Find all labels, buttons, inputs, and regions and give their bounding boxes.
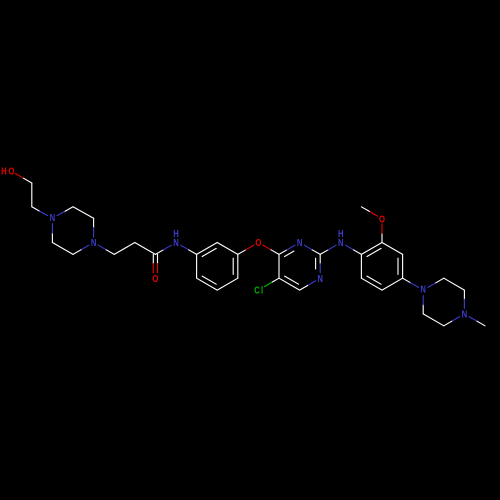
bond ring2 edge top-UR [382,243,403,255]
bond ring1 edge UL-top [197,243,218,255]
double bond inner line ring1 UL-top [202,248,216,256]
bond piperazine2 N-C [428,283,436,288]
bond pyrimidine C5-C4 [278,254,280,278]
bond piperazine1 C-C b [52,243,73,255]
double bond inner line ring1 UR-LR [232,258,234,274]
bond CH2-CH2 [31,183,33,207]
bond piperazine1 C-N [93,218,95,227]
double bond inner line ring1 bot-LL [202,276,216,284]
double bond C=O carbonyl [157,254,159,263]
bond ring1 edge bot-LL [197,278,218,290]
bond ring1 edge LL-UL [196,254,198,278]
svg-text:N: N [297,237,303,248]
double bond inner line pyrimidine C6=C5 [285,276,299,284]
bond NH-phenyl2 [346,245,354,250]
svg-text:N: N [91,237,97,248]
bond ring2 edge LR-bot [382,278,403,290]
bond NH-phenyl [181,245,189,250]
bond pyrimidine N1-C6 [308,281,316,286]
svg-text:O: O [152,273,158,284]
bond piperazine2 C-C b [423,314,444,326]
bond phenyl2-N piperazine2 [403,278,411,283]
svg-text:O: O [8,166,14,177]
double bond inner line ring2 bot-LL [367,276,381,284]
bond piperazine1 N-C b [81,245,89,250]
bond piperazine1 N-C [57,211,65,215]
svg-text:N: N [317,273,323,284]
bond ring1 edge UR-LR [237,254,239,278]
bond HO-CH2 [15,173,23,178]
bond C5-Cl [272,278,279,282]
svg-text:N: N [420,284,426,295]
bond CH2-CH2 propanamide [114,243,135,255]
bond piperazine1 C-C [73,207,94,218]
svg-text:C: C [254,285,260,296]
bond ring1 edge top-UR [217,243,238,255]
bond ring2 edge LL-UL [360,254,362,278]
bond piperazine2 C-C [444,278,465,290]
bond CH2-N piperazine1 [32,207,40,211]
svg-text:N: N [462,308,468,319]
svg-text:H: H [1,166,7,177]
bond O-pyrimidine C4 [263,245,271,250]
svg-text:O: O [379,213,385,224]
bond pyrimidine C2-NH [320,250,328,255]
svg-text:H: H [338,228,344,239]
double bond inner line pyrimidine C4=N3 [285,251,294,256]
bond pyrimidine N3-C2 [304,245,312,250]
double bond inner line ring2 UL-top [367,248,381,256]
bond O-CH3 methoxy [369,211,377,216]
bond N-CH2 propanamide [98,245,106,250]
bond CH2-C=O [135,243,156,255]
bond phenyl2-O methoxy [381,233,383,242]
double bond inner line pyrimidine C2=N1 [315,258,317,269]
bond piperazine2 N-C b [452,317,460,322]
double bond inner line ring2 UR-LR [397,258,399,274]
bond pyrimidine C2-N1 [319,254,321,263]
svg-text:O: O [255,237,261,248]
svg-text:N: N [50,212,56,223]
bond pyrimidine C4-N3 [279,250,287,255]
svg-text:l: l [261,285,263,296]
bond piperazine2 C-N b [422,305,424,314]
bond C(=O)-NH [155,250,163,255]
bond phenyl-O ether [238,250,246,255]
bond pyrimidine C6-C5 [279,278,300,290]
bond ring2 edge bot-LL [361,278,382,290]
bond ring1 edge LR-bot [217,278,238,290]
bond N-CH3 [469,317,477,322]
bond piperazine2 C-N [463,290,465,299]
bond ring2 edge UR-LR [402,254,404,278]
bond ring2 edge UL-top [361,243,382,255]
bond piperazine1 C-N b [51,233,53,242]
svg-text:H: H [173,228,179,239]
